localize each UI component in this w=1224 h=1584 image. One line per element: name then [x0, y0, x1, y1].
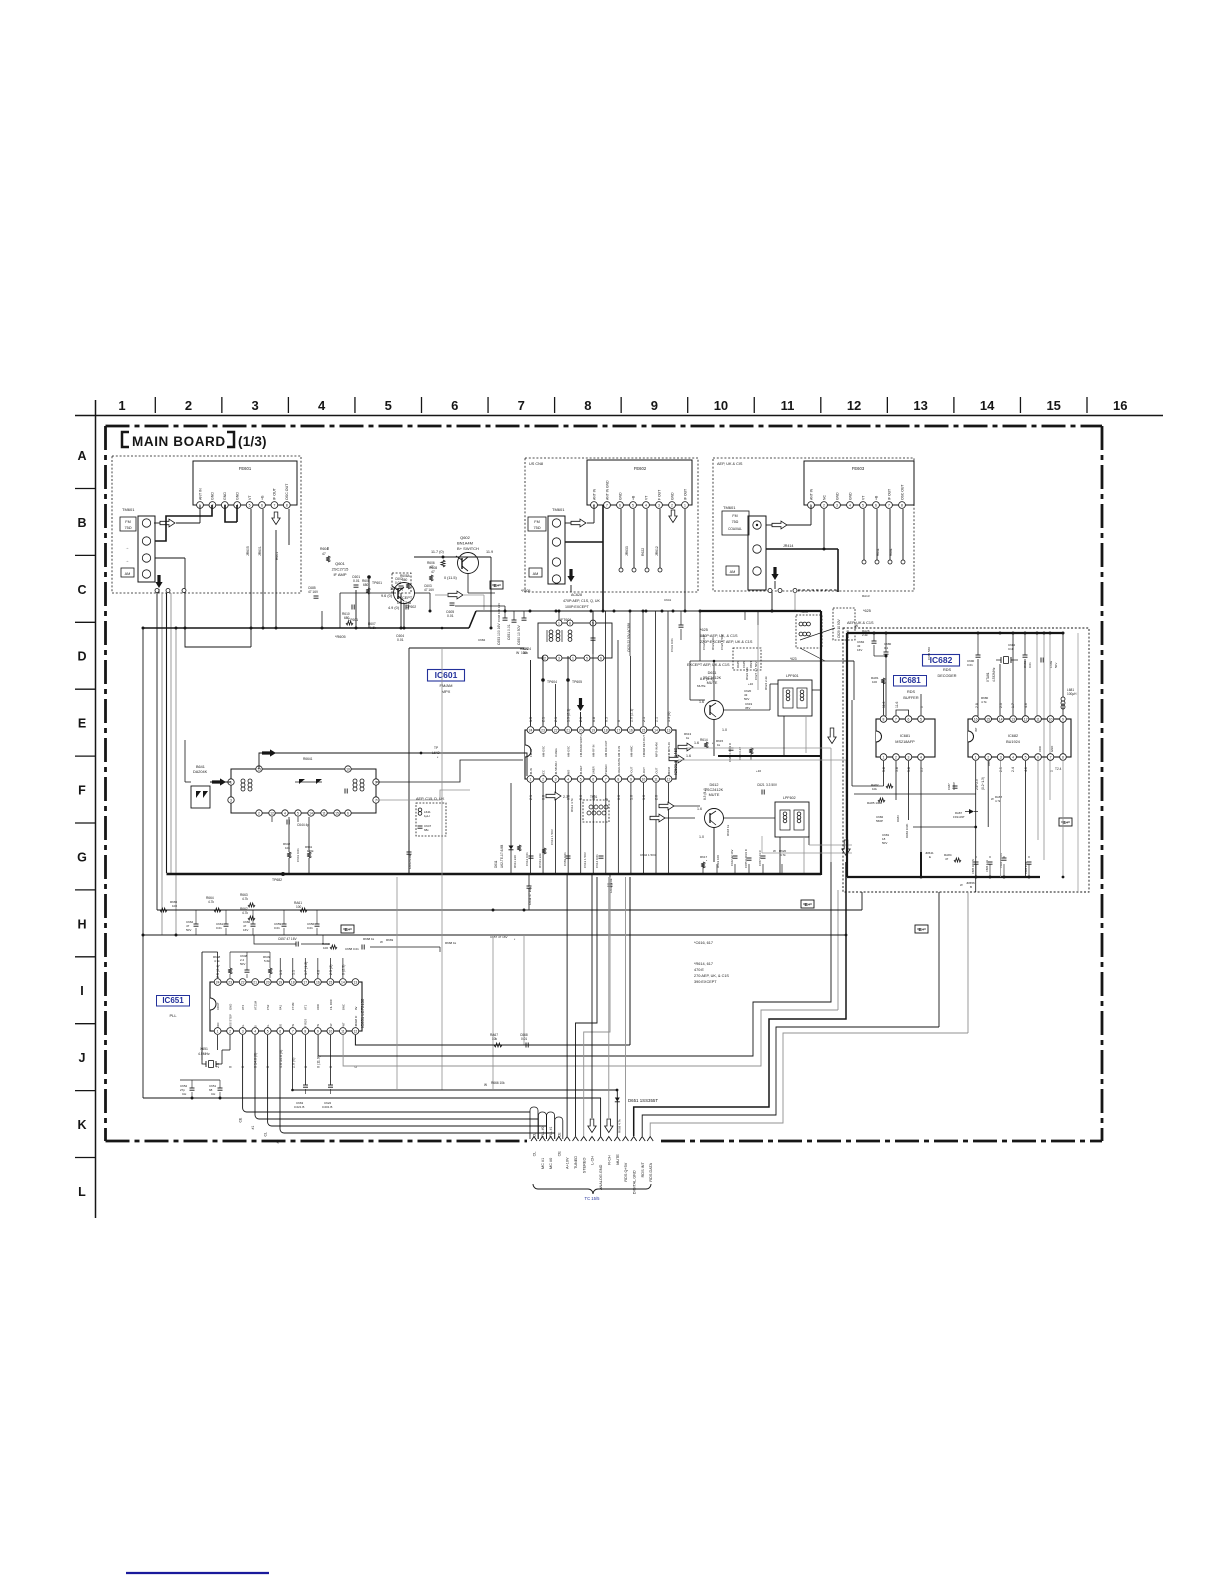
svg-text:VCC: VCC — [541, 770, 545, 776]
svg-text:MC #0: MC #0 — [549, 1158, 553, 1169]
svg-text:6: 6 — [592, 777, 594, 781]
svg-text:1.7 (1.2): 1.7 (1.2) — [304, 962, 308, 975]
svg-text:6: 6 — [261, 503, 263, 507]
svg-text:100: 100 — [172, 904, 177, 908]
svg-text:R619 100: R619 100 — [716, 855, 720, 868]
svg-text:ANALOG.GND: ANALOG.GND — [599, 1164, 603, 1190]
svg-text:6: 6 — [619, 503, 621, 507]
svg-text:5: 5 — [249, 503, 251, 507]
svg-text:560P: 560P — [876, 819, 883, 823]
svg-text:CE: CE — [557, 1132, 561, 1137]
svg-text:IF-REG MUTE: IF-REG MUTE — [617, 758, 621, 776]
svg-text:47: 47 — [431, 570, 435, 574]
svg-text:GND: GND — [848, 492, 852, 500]
svg-text:GND: GND — [223, 492, 227, 500]
svg-text:0 14.6 (0): 0 14.6 (0) — [254, 1053, 258, 1068]
svg-text:8: 8 — [569, 621, 571, 625]
svg-text:1.0: 1.0 — [699, 835, 704, 839]
svg-text:10k: 10k — [492, 1037, 498, 1041]
svg-text:C18: C18 — [1008, 647, 1014, 651]
svg-text:#0: #0 — [276, 1140, 280, 1144]
svg-text:8.3 (8.4): 8.3 (8.4) — [703, 788, 707, 800]
svg-text:68ε: 68ε — [424, 828, 429, 832]
svg-text:9: 9 — [317, 1029, 319, 1033]
svg-text:FM/AM: FM/AM — [440, 683, 453, 688]
svg-text:5.6k: 5.6k — [264, 959, 270, 963]
svg-text:2.0: 2.0 — [655, 795, 659, 800]
svg-text:6: 6 — [451, 398, 458, 413]
svg-text:FM-BAND WIDTH: FM-BAND WIDTH — [579, 734, 583, 757]
svg-text:*R605: *R605 — [335, 635, 346, 639]
svg-text:ANT IN: ANT IN — [198, 488, 202, 500]
svg-text:7: 7 — [273, 503, 275, 507]
svg-text:T603: T603 — [800, 610, 808, 614]
svg-text:4: 4 — [849, 503, 851, 507]
svg-text:47: 47 — [322, 552, 326, 556]
svg-text:B+: B+ — [918, 927, 924, 932]
svg-text:PN: PN — [316, 1024, 320, 1028]
svg-text:RB21: RB21 — [749, 661, 753, 668]
svg-text:15: 15 — [642, 728, 646, 732]
svg-text:C648 100 16V: C648 100 16V — [497, 603, 501, 622]
svg-text:5: 5 — [267, 1029, 269, 1033]
svg-text:50V: 50V — [1054, 663, 1058, 668]
svg-text:23: 23 — [228, 980, 232, 984]
svg-text:VT2: VT2 — [241, 1004, 245, 1010]
svg-text:C685 560: C685 560 — [927, 647, 931, 660]
svg-text:3: 3 — [558, 656, 560, 660]
svg-text:C629 10 50V: C629 10 50V — [837, 619, 841, 638]
svg-text:CH: CH — [211, 1092, 215, 1096]
svg-text:100: 100 — [323, 946, 328, 950]
svg-text:8: 8 — [901, 503, 903, 507]
svg-text:W: W — [380, 940, 383, 944]
svg-text:10: 10 — [346, 767, 350, 771]
svg-text:1000P: 1000P — [952, 782, 956, 790]
svg-text:1μH: 1μH — [424, 814, 430, 818]
svg-text:0.01: 0.01 — [395, 581, 401, 585]
svg-text:L642: L642 — [432, 751, 440, 755]
svg-text:C641: C641 — [664, 598, 672, 602]
svg-text:C658 0.01: C658 0.01 — [345, 947, 359, 951]
svg-text:PLL #1: PLL #1 — [549, 1127, 553, 1137]
svg-text:NC: NC — [822, 495, 826, 500]
svg-text:W: W — [484, 1083, 487, 1087]
svg-text:CL: CL — [533, 1152, 537, 1157]
svg-text:4: 4 — [254, 1029, 256, 1033]
svg-text:D651 1SS355T: D651 1SS355T — [628, 1098, 658, 1103]
svg-text:EXCEPT AEP, UK & C1S: EXCEPT AEP, UK & C1S — [687, 663, 730, 667]
svg-text:17: 17 — [616, 728, 620, 732]
svg-text:R683: R683 — [896, 815, 900, 822]
svg-text:PLL #0: PLL #0 — [541, 1127, 545, 1137]
svg-text:3: 3 — [555, 777, 557, 781]
svg-text:TUNED: TUNED — [574, 1156, 578, 1169]
svg-text:AEP, UK & C1S: AEP, UK & C1S — [847, 621, 874, 625]
svg-text:(1/3): (1/3) — [238, 434, 267, 449]
svg-text:1: 1 — [558, 621, 560, 625]
svg-text:16: 16 — [629, 728, 633, 732]
svg-text:RDS Q+5V: RDS Q+5V — [624, 1162, 628, 1181]
svg-text:V-REG: V-REG — [554, 748, 558, 757]
svg-text:AM IF-IN: AM IF-IN — [617, 746, 621, 757]
svg-text:C651 0.01: C651 0.01 — [507, 624, 511, 640]
svg-text:PS2: PS2 — [266, 1004, 270, 1010]
svg-text:XTA81: XTA81 — [986, 672, 990, 682]
svg-text:IF-OUT: IF-OUT — [629, 766, 633, 776]
svg-text:R669 4.7k: R669 4.7k — [618, 1119, 622, 1133]
svg-text:RDS DATA: RDS DATA — [649, 1162, 653, 1181]
svg-text:6.8: 6.8 — [592, 717, 596, 722]
svg-text:*C616, 617: *C616, 617 — [694, 941, 713, 945]
svg-text:FT1M: FT1M — [291, 1002, 295, 1010]
svg-text:22: 22 — [554, 728, 558, 732]
svg-text:STEREO: STEREO — [604, 764, 608, 776]
svg-text:0 (2.9): 0 (2.9) — [341, 965, 345, 975]
svg-text:2.1: 2.1 — [579, 717, 583, 722]
svg-text:24: 24 — [529, 728, 533, 732]
svg-text:16V: 16V — [857, 648, 862, 652]
svg-text:J: J — [79, 1051, 86, 1065]
svg-text:R618 1k: R618 1k — [726, 824, 730, 836]
svg-text:2SC2412K: 2SC2412K — [705, 788, 724, 792]
svg-text:US CN8: US CN8 — [529, 462, 543, 466]
svg-text:B: B — [77, 516, 86, 530]
svg-text:AM-AMC: AM-AMC — [629, 746, 633, 757]
svg-text:14: 14 — [980, 398, 995, 413]
svg-text:5: 5 — [1025, 755, 1027, 759]
svg-text:7: 7 — [292, 1029, 294, 1033]
svg-text:6: 6 — [908, 717, 910, 721]
svg-text:T601: T601 — [590, 795, 597, 799]
svg-text:+B: +B — [631, 495, 635, 500]
svg-text:470:E: 470:E — [694, 968, 704, 972]
svg-text:R625: R625 — [736, 661, 740, 668]
svg-text:+16: +16 — [748, 682, 753, 686]
svg-text:2: 2 — [185, 398, 192, 413]
svg-text:1: 1 — [530, 777, 532, 781]
svg-text:D611: D611 — [494, 860, 498, 868]
svg-text:C613 1 50V: C613 1 50V — [583, 852, 587, 868]
svg-text:11: 11 — [1036, 717, 1040, 721]
svg-text:C683 0.01: C683 0.01 — [563, 852, 567, 866]
svg-text:50V: 50V — [186, 928, 191, 932]
svg-text:220P:EXCEPT AEP, UK & C1S: 220P:EXCEPT AEP, UK & C1S — [700, 640, 753, 644]
svg-text:COAXIAL: COAXIAL — [728, 527, 742, 531]
svg-text:GND: GND — [618, 492, 622, 500]
svg-text:6.0: 6.0 — [617, 795, 621, 800]
svg-text:C68A 0.0033 D: C68A 0.0033 D — [728, 743, 732, 762]
svg-text:11.6: 11.6 — [882, 702, 886, 708]
svg-text:10: 10 — [328, 1029, 332, 1033]
svg-text:C650 10 50V: C650 10 50V — [517, 624, 521, 645]
svg-text:0.021 B: 0.021 B — [294, 1105, 304, 1109]
svg-text:8: 8 — [617, 777, 619, 781]
svg-text:R623 10k: R623 10k — [711, 637, 715, 650]
svg-text:ANT IN: ANT IN — [592, 488, 596, 500]
svg-text:23: 23 — [541, 728, 545, 732]
svg-text:20: 20 — [579, 728, 583, 732]
svg-text:IC651 LC72130: IC651 LC72130 — [360, 998, 365, 1028]
svg-text:BN1A4M: BN1A4M — [457, 541, 473, 546]
svg-text:7: 7 — [1050, 755, 1052, 759]
svg-text:FM/AM DET-OUT: FM/AM DET-OUT — [642, 735, 646, 757]
svg-text:CH: CH — [182, 1092, 186, 1096]
svg-text:DECODER: DECODER — [938, 674, 957, 678]
svg-text:C641 0.01: C641 0.01 — [296, 848, 300, 862]
svg-text:11: 11 — [322, 811, 326, 815]
svg-text:2.1: 2.1 — [529, 795, 533, 800]
svg-text:→: → — [125, 545, 129, 550]
svg-text:7: 7 — [605, 777, 607, 781]
svg-text:8: 8 — [883, 717, 885, 721]
svg-text:75Ω: 75Ω — [533, 526, 540, 530]
svg-text:10: 10 — [714, 398, 728, 413]
svg-text:AM-OSC: AM-OSC — [541, 746, 545, 757]
svg-text:PN: PN — [291, 1024, 295, 1028]
svg-text:RV611 22k: RV611 22k — [538, 853, 542, 868]
svg-text:1.9 (2.1): 1.9 (2.1) — [567, 709, 571, 722]
svg-text:ANT IN: ANT IN — [809, 488, 813, 500]
svg-text:5.8: 5.8 — [907, 767, 911, 772]
svg-text:AEP, C15, D, UK: AEP, C15, D, UK — [416, 797, 445, 801]
svg-text:12: 12 — [667, 777, 671, 781]
svg-text:5.8: 5.8 — [882, 767, 886, 772]
svg-text:R-CH: R-CH — [607, 1155, 611, 1165]
svg-text:13: 13 — [1011, 717, 1015, 721]
svg-text:100μH: 100μH — [1067, 692, 1077, 696]
svg-text:12: 12 — [1024, 717, 1028, 721]
svg-text:T2.4: T2.4 — [1055, 767, 1062, 771]
svg-text:0: 0 — [241, 1066, 245, 1068]
svg-text:0.01: 0.01 — [1028, 662, 1032, 668]
svg-text:IF OUT: IF OUT — [683, 489, 687, 500]
svg-text:2.4: 2.4 — [1011, 767, 1015, 772]
svg-text:2: 2 — [542, 777, 544, 781]
svg-text:R666 10k: R666 10k — [491, 1081, 505, 1085]
svg-text:1.6: 1.6 — [629, 795, 633, 800]
svg-text:C686 47 50V: C686 47 50V — [999, 853, 1003, 868]
svg-text:1.0: 1.0 — [722, 728, 727, 732]
svg-text:MPS-IN AM: MPS-IN AM — [654, 742, 658, 757]
svg-text:9: 9 — [630, 777, 632, 781]
svg-text:1.6: 1.6 — [694, 741, 699, 745]
svg-text:5: 5 — [580, 777, 582, 781]
svg-text:18: 18 — [291, 980, 295, 984]
svg-text:CE: CE — [238, 1117, 242, 1122]
svg-text:1: 1 — [572, 656, 574, 660]
svg-text:VT1: VT1 — [304, 1004, 308, 1010]
svg-text:FM: FM — [732, 514, 737, 518]
svg-text:GND: GND — [670, 492, 674, 500]
svg-text:MPX: MPX — [442, 689, 451, 694]
svg-text:14: 14 — [341, 980, 345, 984]
svg-text:R6641: R6641 — [303, 757, 313, 761]
svg-text:JR601: JR601 — [258, 546, 262, 556]
svg-text:680: 680 — [363, 583, 369, 587]
svg-text:0.001 B: 0.001 B — [322, 1105, 332, 1109]
svg-text:8: 8 — [584, 398, 591, 413]
svg-text:IF RDS: IF RDS — [304, 1019, 308, 1028]
svg-text:1: 1 — [217, 1029, 219, 1033]
svg-text:270:AEP, UK, & C1S: 270:AEP, UK, & C1S — [694, 974, 729, 978]
svg-text:B+: B+ — [804, 902, 810, 907]
svg-text:JR605: JR605 — [246, 546, 250, 556]
svg-text:EXCEPT: EXCEPT — [397, 596, 413, 600]
svg-text:75Ω: 75Ω — [732, 520, 739, 524]
svg-text:FM-IN: FM-IN — [529, 768, 533, 776]
svg-text:AM: AM — [533, 572, 539, 576]
svg-text:3.3 50V: 3.3 50V — [766, 783, 778, 787]
svg-text:R-OUT: R-OUT — [642, 767, 646, 776]
svg-text:CF602: CF602 — [406, 605, 416, 609]
svg-text:D: D — [77, 650, 86, 664]
svg-text:C685 18 50V: C685 18 50V — [971, 859, 975, 874]
svg-text:IC601: IC601 — [435, 670, 458, 680]
svg-text:+16: +16 — [756, 769, 761, 773]
svg-text:8: 8 — [286, 503, 288, 507]
svg-text:BUFFER: BUFFER — [903, 696, 918, 700]
svg-text:2: 2 — [671, 503, 673, 507]
svg-text:TP604: TP604 — [547, 680, 557, 684]
svg-text:PA1: PA1 — [279, 1004, 283, 1010]
svg-text:5.0: 5.0 — [579, 795, 583, 800]
svg-text:RA85 130k: RA85 130k — [867, 801, 882, 805]
svg-text:4: 4 — [567, 777, 569, 781]
svg-text:B+: B+ — [344, 927, 350, 932]
svg-text:C655 0.0033 D: C655 0.0033 D — [744, 849, 748, 868]
svg-text:0.01: 0.01 — [307, 926, 313, 930]
svg-text:L-CH: L-CH — [591, 1156, 595, 1165]
svg-text:R611 220: R611 220 — [513, 855, 517, 868]
svg-text:TP682: TP682 — [272, 878, 282, 882]
svg-text:C629 22 50V AC638: C629 22 50V AC638 — [627, 623, 631, 652]
svg-text:C612 0.01: C612 0.01 — [525, 852, 529, 866]
svg-text:FM: FM — [534, 520, 539, 524]
svg-text:MC #1: MC #1 — [541, 1158, 545, 1169]
svg-text:DIGITAL.GND: DIGITAL.GND — [632, 1170, 636, 1194]
svg-text:10k: 10k — [523, 651, 529, 655]
svg-text:*R614, 617: *R614, 617 — [694, 962, 713, 966]
svg-text:4.7k: 4.7k — [981, 700, 987, 704]
svg-text:C657 47 16V: C657 47 16V — [278, 937, 297, 941]
svg-text:12: 12 — [847, 398, 861, 413]
svg-text:4: 4 — [920, 755, 922, 759]
svg-text:1k: 1k — [717, 743, 721, 747]
svg-text:R681: R681 — [889, 548, 893, 556]
svg-text:2.5 (2): 2.5 (2) — [329, 965, 333, 975]
svg-text:4.7k: 4.7k — [995, 799, 1001, 803]
svg-text:16V: 16V — [243, 928, 248, 932]
svg-text:BU1924: BU1924 — [1006, 740, 1020, 744]
svg-text:TP605: TP605 — [572, 680, 582, 684]
svg-text:*623: *623 — [790, 657, 797, 661]
svg-text:20: 20 — [266, 980, 270, 984]
svg-text:15: 15 — [1046, 398, 1060, 413]
svg-text:GND: GND — [835, 492, 839, 500]
svg-text:8: 8 — [1062, 755, 1064, 759]
svg-text:FE603: FE603 — [852, 466, 865, 471]
svg-text:B+ SWITCH: B+ SWITCH — [457, 546, 479, 551]
svg-text:6.8: 6.8 — [542, 795, 546, 800]
svg-text:4: 4 — [645, 503, 647, 507]
svg-text:0.01: 0.01 — [447, 614, 454, 618]
svg-text:2.5: 2.5 — [999, 767, 1003, 772]
svg-text:MAIN BOARD: MAIN BOARD — [132, 434, 226, 449]
svg-text:#1: #1 — [251, 1126, 255, 1130]
svg-text:9: 9 — [651, 398, 658, 413]
svg-text:GND: GND — [1050, 746, 1054, 752]
svg-text:MUTE: MUTE — [707, 681, 718, 685]
svg-text:DATA: DATA — [987, 759, 991, 766]
svg-text:L-OUT: L-OUT — [654, 767, 658, 776]
svg-text:W: W — [991, 797, 994, 801]
svg-text:3: 3 — [658, 503, 660, 507]
svg-text:+B: +B — [260, 495, 264, 500]
svg-text:2: 2 — [823, 503, 825, 507]
svg-text:0: 0 — [617, 720, 621, 722]
svg-text:4.7k: 4.7k — [208, 900, 214, 904]
svg-text:R604: R604 — [320, 547, 328, 551]
svg-text:35V: 35V — [745, 706, 750, 710]
svg-text:0.01: 0.01 — [216, 926, 222, 930]
svg-text:12: 12 — [354, 1029, 358, 1033]
svg-text:FM-DET: FM-DET — [579, 765, 583, 776]
svg-text:FM-SB ADJ: FM-SB ADJ — [554, 761, 558, 776]
svg-text:C631 0.01: C631 0.01 — [670, 638, 674, 652]
svg-text:CL: CL — [533, 1133, 537, 1137]
svg-text:MUTE: MUTE — [616, 1154, 620, 1165]
svg-text:IF OUT: IF OUT — [273, 487, 277, 500]
svg-text:3: 3 — [908, 755, 910, 759]
svg-text:19: 19 — [591, 728, 595, 732]
svg-text:2.8: 2.8 — [975, 703, 979, 708]
svg-text:K: K — [77, 1118, 86, 1132]
svg-text:0.01: 0.01 — [967, 663, 973, 667]
svg-text:0 (11.5): 0 (11.5) — [444, 576, 458, 580]
svg-text:9: 9 — [1062, 717, 1064, 721]
svg-text:VT: VT — [861, 496, 865, 500]
svg-text:9.6 (0): 9.6 (0) — [381, 594, 393, 598]
svg-text:10k: 10k — [285, 846, 290, 850]
svg-text:1.6: 1.6 — [697, 807, 702, 811]
svg-text:E: E — [78, 717, 86, 731]
svg-text:4.332MHz: 4.332MHz — [992, 667, 996, 682]
svg-text:R614: R614 — [700, 738, 708, 742]
svg-text:8: 8 — [304, 1029, 306, 1033]
svg-text:OSC OUT: OSC OUT — [285, 483, 289, 500]
svg-text:0 (11.9): 0 (11.9) — [316, 1056, 320, 1068]
svg-text:CE: CE — [557, 1151, 561, 1157]
svg-text:4.7k: 4.7k — [242, 897, 248, 901]
svg-text:6: 6 — [347, 811, 349, 815]
svg-text:5: 5 — [862, 503, 864, 507]
svg-text:R612 4.7k: R612 4.7k — [570, 798, 574, 812]
svg-text:4.5MHz: 4.5MHz — [198, 1052, 210, 1056]
svg-text:STEREO: STEREO — [582, 1158, 586, 1174]
svg-text:FE602: FE602 — [634, 466, 647, 471]
svg-text:FM: FM — [125, 520, 130, 524]
svg-text:2.1: 2.1 — [542, 717, 546, 722]
svg-text:FM/AM IF: FM/AM IF — [354, 1015, 358, 1028]
svg-text:2: 2 — [229, 1029, 231, 1033]
svg-text:1SS133T: 1SS133T — [953, 815, 965, 819]
svg-text:0: 0 — [229, 1066, 233, 1068]
svg-text:XOUT: XOUT — [216, 1002, 220, 1010]
svg-text:75Ω: 75Ω — [124, 526, 131, 530]
svg-text:FM MPS-IN: FM MPS-IN — [667, 742, 671, 757]
svg-text:IC681: IC681 — [899, 676, 921, 685]
